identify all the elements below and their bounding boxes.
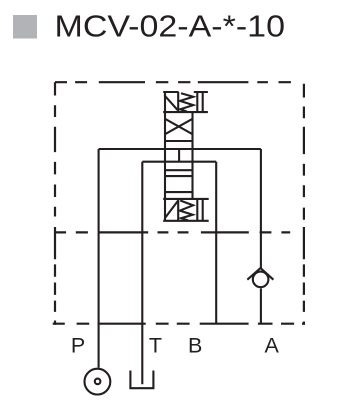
- gauge port symbol center dot: [95, 379, 101, 385]
- wire A line vertical upper: [260, 149, 262, 268]
- wire A line vertical lower: [260, 288, 262, 323]
- wire P line vertical: [98, 149, 100, 368]
- relief element U2 internal diagonal: [165, 201, 178, 218]
- relief element U2 adjuster bars: [197, 199, 202, 221]
- wire P-A horizontal: [99, 148, 261, 150]
- interface band lines and divider: [164, 149, 193, 192]
- dashed enclosure bottom edge (with solid P-T, B, A interface segments): [53, 323, 305, 325]
- dashed enclosure left edge: [54, 82, 56, 325]
- relief element U2 spring: [180, 201, 193, 221]
- wire T-B horizontal: [142, 161, 216, 163]
- dashed mid interface line (with solid P-T and B and A junction segments): [55, 231, 290, 233]
- svg-text:B: B: [188, 333, 202, 357]
- relief element U1 adjuster bars: [197, 92, 202, 112]
- dashed enclosure top edge (with solid P-T and B interface segments): [55, 81, 291, 83]
- svg-text:A: A: [265, 333, 280, 357]
- check valve CV1 ball circle: [253, 272, 269, 288]
- wire T line vertical: [141, 162, 143, 385]
- relief element U2 box (bottom): [163, 199, 209, 221]
- svg-text:T: T: [149, 333, 162, 357]
- title bullet square: [13, 15, 37, 39]
- svg-text:MCV-02-A-*-10: MCV-02-A-*-10: [55, 10, 286, 44]
- dashed enclosure right edge: [303, 84, 305, 325]
- relief element U1 internal diagonal: [164, 95, 177, 110]
- tank symbol: [130, 371, 153, 389]
- relief element U1 spring: [180, 93, 193, 111]
- wire B line vertical: [215, 162, 217, 324]
- gauge port symbol circle: [85, 369, 111, 395]
- closed transition box with X: [164, 112, 193, 199]
- relief element U1 box (top): [163, 92, 208, 221]
- svg-text:P: P: [71, 333, 85, 357]
- check valve CV1 seat: [247, 268, 273, 280]
